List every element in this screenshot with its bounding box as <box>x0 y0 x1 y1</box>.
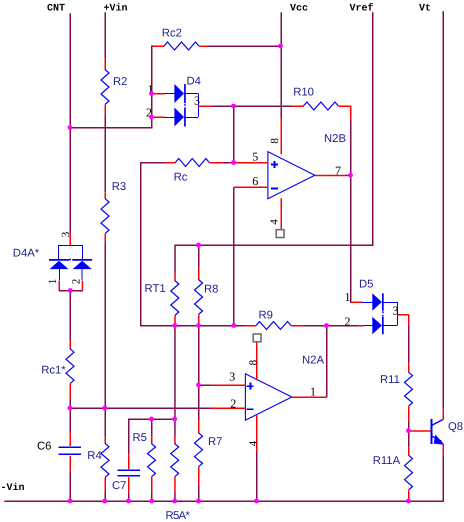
wire Vref rail and Vref feed <box>175 12 373 273</box>
svg-text:2: 2 <box>230 396 236 410</box>
svg-text:4: 4 <box>247 440 259 446</box>
wire R5 bottom <box>151 492 153 501</box>
wire Rc2 output to Vcc <box>199 45 281 47</box>
wire R8 bottom to R7 <box>198 321 200 420</box>
wire R8 top <box>198 245 200 267</box>
wire N2B pin6 down <box>233 187 235 326</box>
svg-text:1: 1 <box>47 279 59 285</box>
svg-text:7: 7 <box>335 163 341 177</box>
pin number D5-2 <box>345 314 351 328</box>
svg-text:N2A: N2A <box>302 355 324 367</box>
op-amp N2A <box>211 338 327 451</box>
wire Vt rail <box>442 11 444 408</box>
pin number N2B-8 <box>269 138 281 144</box>
svg-text:5: 5 <box>252 149 258 163</box>
svg-text:C7: C7 <box>112 480 126 492</box>
svg-text:R4: R4 <box>87 450 101 462</box>
svg-text:Vcc: Vcc <box>290 4 308 15</box>
wire D4 pin3 to R10 <box>212 105 293 107</box>
svg-text:+Vin: +Vin <box>104 3 128 15</box>
pin number D4-1 <box>148 82 154 96</box>
resistor Rc <box>166 159 224 184</box>
diode D4A* <box>13 234 92 291</box>
wire N2A pin2 net <box>70 407 211 409</box>
wire Rc2 left and D4 pins to CNT <box>70 46 163 128</box>
pin number N2A-2 <box>230 396 236 410</box>
wire C7 bottom <box>128 492 130 501</box>
svg-text:-Vin: -Vin <box>1 482 25 494</box>
diode D5 <box>352 279 409 335</box>
wire C7 R5 R5A top net <box>129 419 175 454</box>
wire N2A pin3 stub <box>199 384 211 386</box>
wire +Vin rail bottom <box>104 491 106 501</box>
wire R11 bottom to base node <box>408 420 410 447</box>
no-connect N2B pin4 <box>276 230 284 238</box>
resistor R2 <box>101 58 127 114</box>
svg-text:3: 3 <box>393 304 399 318</box>
resistor R3 <box>101 181 126 242</box>
op-amp N2B <box>234 118 351 233</box>
svg-text:R11A: R11A <box>373 455 401 467</box>
pin number N2B-5 <box>252 149 258 163</box>
pin number N2A-4 <box>247 440 259 446</box>
svg-text:Q8: Q8 <box>448 421 463 433</box>
pin number N2B-6 <box>252 174 258 188</box>
svg-text:3: 3 <box>229 370 235 384</box>
svg-text:3: 3 <box>60 231 72 237</box>
wire R5A bottom <box>174 491 176 501</box>
pin number D4A-3 <box>60 231 72 237</box>
svg-text:D5: D5 <box>359 279 373 291</box>
resistor R11A <box>373 447 413 501</box>
port +Vin <box>104 3 128 15</box>
pin number D4-3 <box>194 94 200 108</box>
wire CNT rail mid <box>69 291 71 341</box>
svg-text:8: 8 <box>269 138 281 144</box>
svg-text:C6: C6 <box>37 440 51 452</box>
wire +Vin rail R2-R3 <box>104 114 106 192</box>
pin number N2A-8 <box>248 359 260 365</box>
svg-text:D4A*: D4A* <box>13 248 40 260</box>
wire R11 top from D5 pin3 <box>408 325 410 363</box>
wire +Vin rail mid <box>104 242 106 437</box>
wire Vcc rail <box>280 12 282 118</box>
wire Rc right to pin5 node <box>224 162 234 164</box>
svg-text:R8: R8 <box>204 284 218 296</box>
svg-text:1: 1 <box>345 290 351 304</box>
resistor R5A* <box>166 437 191 522</box>
wire R5 top <box>151 419 153 436</box>
pin number D4A-2 <box>71 279 83 285</box>
wire node to D5 pin2 <box>327 325 360 327</box>
svg-text:1: 1 <box>310 384 316 398</box>
resistor R4 <box>87 437 109 491</box>
svg-text:R5A*: R5A* <box>166 510 191 522</box>
svg-text:3: 3 <box>194 94 200 108</box>
pin number D5-3 <box>393 304 399 318</box>
wire +Vin rail top <box>104 12 106 58</box>
capacitor C6 <box>37 432 81 470</box>
wire Rc left to feedback net <box>141 163 175 326</box>
wire R9 right to node <box>302 325 327 327</box>
diode D4 <box>153 76 211 127</box>
svg-text:D4: D4 <box>187 76 201 88</box>
pin number D4-2 <box>146 106 152 120</box>
svg-text:R5: R5 <box>133 432 147 444</box>
svg-text:R3: R3 <box>112 181 126 193</box>
svg-text:4: 4 <box>269 219 281 225</box>
wire CNT rail low <box>69 398 71 432</box>
pin number N2A-1 <box>310 384 316 398</box>
wire D4 out down to pin5 node <box>233 106 235 163</box>
svg-text:Rc1*: Rc1* <box>41 365 66 377</box>
svg-text:R9: R9 <box>259 309 273 321</box>
pin number N2B-7 <box>335 163 341 177</box>
wire CNT rail <box>69 13 71 233</box>
resistor R9 <box>245 309 302 329</box>
port Vt <box>419 4 431 15</box>
svg-text:2: 2 <box>71 279 83 285</box>
svg-text:8: 8 <box>248 359 260 365</box>
wire N2A pin4 to rail <box>256 451 258 501</box>
resistor R10 <box>292 87 351 120</box>
svg-text:2: 2 <box>345 314 351 328</box>
resistor R11 <box>380 363 413 420</box>
svg-text:Vref: Vref <box>350 3 374 15</box>
wire feedback net horizontal <box>175 325 245 327</box>
wire CNT rail bottom <box>69 470 71 501</box>
wire R7 bottom <box>198 485 200 501</box>
svg-text:RT1: RT1 <box>145 283 166 295</box>
svg-text:R2: R2 <box>113 76 127 88</box>
svg-text:Vt: Vt <box>419 4 431 15</box>
no-connect N2A pin8 <box>253 334 261 342</box>
svg-text:Rc2: Rc2 <box>162 28 182 40</box>
resistor Rc1* <box>41 340 74 398</box>
svg-text:Rc: Rc <box>174 172 188 184</box>
port Vcc <box>290 4 308 15</box>
resistor R5 <box>133 432 156 492</box>
pin number D4A-1 <box>47 279 59 285</box>
pin number N2B-4 <box>269 219 281 225</box>
port Vref <box>350 3 374 15</box>
wire bottom -Vin rail <box>4 454 443 501</box>
svg-text:6: 6 <box>252 174 258 188</box>
port CNT <box>47 4 65 15</box>
resistor RT1 <box>145 273 179 324</box>
svg-text:N2B: N2B <box>324 133 346 145</box>
capacitor C7 <box>112 454 140 492</box>
port -Vin <box>1 482 25 494</box>
svg-text:R11: R11 <box>380 374 400 386</box>
svg-text:CNT: CNT <box>47 4 65 15</box>
svg-text:R7: R7 <box>208 436 222 448</box>
transistor Q8 <box>409 409 463 455</box>
resistor Rc2 <box>153 28 207 50</box>
svg-text:R10: R10 <box>293 87 314 99</box>
wire N2B out down to D5 pin1 <box>351 175 352 302</box>
wire N2A out up to R9 node <box>326 326 328 398</box>
wire R10 right down to pin7 <box>350 119 352 175</box>
wire R5A vertical from feedback net <box>174 326 176 437</box>
pin number D5-1 <box>345 290 351 304</box>
resistor R8 <box>195 268 219 322</box>
pin number N2A-3 <box>229 370 235 384</box>
resistor R7 <box>195 420 223 485</box>
